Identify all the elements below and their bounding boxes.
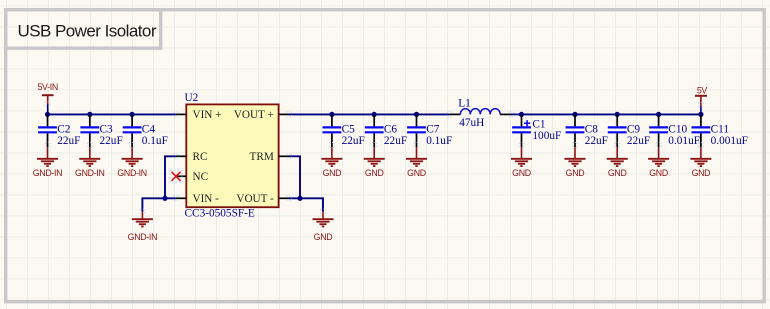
ground GND under C9	[607, 147, 628, 178]
wire L1 to output caps	[511, 113, 701, 115]
capacitor C8	[566, 114, 608, 147]
svg-text:C6: C6	[384, 124, 398, 136]
capacitor C4	[123, 114, 168, 147]
pin hotspot marks	[45, 102, 703, 215]
svg-text:GND-IN: GND-IN	[33, 168, 62, 178]
ground GND under C5	[321, 147, 342, 178]
svg-text:22uF: 22uF	[384, 135, 407, 147]
svg-text:C8: C8	[585, 124, 599, 136]
svg-text:VIN +: VIN +	[193, 109, 222, 121]
svg-text:U2: U2	[185, 92, 199, 104]
svg-text:C1: C1	[532, 119, 545, 131]
svg-text:RC: RC	[193, 151, 208, 163]
svg-text:0.1uF: 0.1uF	[426, 135, 452, 147]
svg-text:0.01uF: 0.01uF	[668, 135, 700, 147]
capacitor C11	[692, 114, 748, 147]
svg-text:TRM: TRM	[250, 151, 274, 163]
svg-text:VOUT +: VOUT +	[234, 109, 274, 121]
svg-text:C7: C7	[426, 124, 440, 136]
capacitor C6	[365, 114, 407, 147]
wire RC to VIN-	[165, 156, 176, 198]
ground GND under C7	[406, 147, 427, 178]
svg-text:CC3-0505SF-E: CC3-0505SF-E	[185, 208, 255, 220]
ground GND under C10	[648, 147, 669, 178]
junction output bus at C6	[372, 112, 377, 117]
wire input bus	[48, 113, 176, 115]
svg-text:GND: GND	[407, 168, 426, 178]
svg-text:C5: C5	[342, 124, 356, 136]
svg-text:NC: NC	[193, 171, 209, 183]
svg-text:GND: GND	[566, 168, 585, 178]
power port 5V-IN	[37, 82, 58, 115]
svg-text:GND: GND	[323, 168, 342, 178]
ground GND-IN under C3	[75, 147, 104, 178]
capacitor C9	[608, 114, 650, 147]
pin RC	[176, 151, 208, 163]
svg-text:0.1uF: 0.1uF	[142, 135, 168, 147]
svg-text:GND-IN: GND-IN	[75, 168, 104, 178]
junction at C1	[519, 112, 524, 117]
svg-text:22uF: 22uF	[627, 135, 650, 147]
wire output bus VOUT+ to L1	[289, 113, 450, 115]
pin TRM	[250, 151, 289, 163]
svg-text:GND: GND	[512, 168, 531, 178]
svg-text:GND-IN: GND-IN	[128, 232, 157, 242]
power port 5V	[695, 85, 707, 114]
capacitor C10	[649, 114, 700, 147]
svg-text:C3: C3	[100, 124, 114, 136]
svg-text:22uF: 22uF	[57, 135, 80, 147]
svg-text:GND: GND	[649, 168, 668, 178]
junction output bus at C7	[414, 112, 419, 117]
junction input bus at C3	[87, 112, 92, 117]
ground GND-IN under C4	[117, 147, 146, 178]
capacitor C1 polarized	[512, 114, 561, 147]
svg-text:C2: C2	[57, 124, 71, 136]
svg-text:GND: GND	[365, 168, 384, 178]
svg-text:VIN -: VIN -	[193, 193, 220, 205]
inductor L1	[450, 97, 511, 129]
no-connect X on NC pin	[170, 170, 182, 182]
capacitor C7	[407, 114, 452, 147]
junction at C11 / 5V	[698, 112, 703, 117]
svg-text:C9: C9	[627, 124, 641, 136]
svg-text:USB Power Isolator: USB Power Isolator	[18, 22, 157, 41]
pin VOUT+	[234, 109, 289, 121]
junction input bus at C2	[45, 112, 50, 117]
junction TRM/VOUT-	[297, 196, 302, 201]
svg-text:C10: C10	[668, 124, 687, 136]
ground GND under C1	[511, 147, 532, 178]
ground GND-IN under U2	[128, 212, 157, 243]
wire VIN- to GND-IN drop	[142, 198, 176, 211]
svg-text:22uF: 22uF	[585, 135, 608, 147]
svg-text:C4: C4	[142, 124, 156, 136]
svg-text:L1: L1	[458, 97, 471, 109]
svg-text:22uF: 22uF	[342, 135, 365, 147]
junction RC/VIN-	[162, 196, 167, 201]
wire VOUT- to GND drop	[289, 198, 323, 211]
ground GND under C8	[565, 147, 586, 178]
pin VIN+	[176, 109, 222, 121]
capacitor C5	[323, 114, 365, 147]
svg-text:GND-IN: GND-IN	[117, 168, 146, 178]
ground GND under C11	[690, 147, 711, 178]
svg-text:5V: 5V	[697, 85, 708, 95]
svg-text:47uH: 47uH	[459, 117, 484, 129]
junction at C8	[572, 112, 577, 117]
junction at C9	[615, 112, 620, 117]
ground GND under C6	[364, 147, 385, 178]
junction input bus at C4	[130, 112, 135, 117]
ground GND right of U2	[313, 212, 334, 243]
wire TRM to VOUT-	[289, 156, 300, 198]
svg-text:100uF: 100uF	[532, 130, 561, 142]
svg-text:0.001uF: 0.001uF	[711, 135, 748, 147]
title box	[6, 10, 161, 49]
svg-text:GND: GND	[608, 168, 627, 178]
svg-text:GND: GND	[314, 232, 333, 242]
op-amp U2 body	[185, 92, 279, 220]
junction output bus at C5	[329, 112, 334, 117]
svg-text:22uF: 22uF	[100, 135, 123, 147]
capacitor C3	[80, 114, 122, 147]
capacitor C2	[38, 114, 80, 147]
svg-text:VOUT -: VOUT -	[236, 193, 274, 205]
svg-text:GND: GND	[692, 168, 711, 178]
pin VOUT-	[236, 193, 289, 205]
pin VIN-	[176, 193, 219, 205]
pin NC	[176, 171, 208, 183]
junction at C10	[656, 112, 661, 117]
ground GND-IN under C2	[33, 147, 62, 178]
svg-text:5V-IN: 5V-IN	[37, 82, 58, 92]
svg-text:C11: C11	[711, 124, 729, 136]
